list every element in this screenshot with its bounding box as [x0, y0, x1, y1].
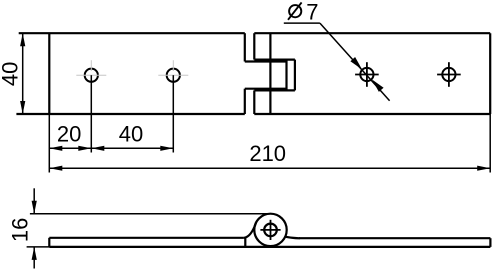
arrow dim16 down [32, 201, 37, 214]
side: right S-curve [285, 237, 300, 239]
svg-text:7: 7 [306, 0, 318, 24]
arrow leader lower [372, 79, 384, 92]
hole 3 [360, 68, 373, 81]
side: left leaf end edge [244, 238, 246, 247]
hole 2 centerlines [158, 74, 188, 76]
top view: left leaf bottom edge [16, 113, 244, 115]
dim 16 line lower [33, 247, 35, 269]
knuckle: left leaf step upper [244, 33, 246, 61]
top view: right leaf right edge [489, 33, 491, 114]
extension line left edge [48, 114, 50, 173]
knuckle: upper slot line [254, 58, 295, 60]
knuckle: left leaf step lower [244, 89, 246, 114]
knuckle: left tab top edge [245, 60, 287, 62]
hole 1 [85, 69, 98, 82]
text 40 vertical [0, 62, 23, 86]
arrow dim20 left [49, 146, 62, 151]
dim line 40 vertical [22, 33, 24, 114]
arrow dim40 left [91, 146, 104, 151]
arrow dim210 left [49, 166, 62, 171]
dim line 210 [49, 167, 490, 169]
arrow dim210 right [477, 166, 490, 171]
dim 16 line upper [33, 188, 35, 213]
side: left leaf left edge [48, 238, 50, 247]
dim line 20/40 [49, 147, 173, 149]
side: pin crosshair [260, 229, 280, 231]
knuckle: right leaf tab edge upper [253, 33, 255, 59]
side: right leaf top [299, 237, 490, 239]
knuckle: left leaf tab end [285, 60, 287, 90]
side: left fillet curve [244, 223, 256, 238]
svg-text:16: 16 [8, 218, 33, 242]
text 16 vertical [8, 218, 33, 242]
svg-text:40: 40 [0, 62, 23, 86]
hole 4 [442, 68, 455, 81]
arrow leader upper [350, 57, 362, 70]
ext line bottom left [27, 246, 50, 248]
side: left leaf top [49, 237, 244, 239]
diameter symbol [288, 2, 302, 19]
svg-text:20: 20 [57, 122, 81, 147]
knuckle: right leaf body edge [269, 33, 271, 114]
ext line knuckle top [30, 213, 271, 215]
svg-text:210: 210 [249, 141, 286, 166]
hole 2 [167, 69, 180, 82]
hole 4 crosshair [437, 74, 461, 76]
leader line [320, 23, 390, 101]
knuckle: left tab bottom edge [245, 88, 287, 90]
side: pin circle [264, 224, 277, 237]
arrow dim40v down [20, 101, 25, 114]
arrow dim40 right [160, 146, 173, 151]
knuckle: socket end [294, 60, 296, 91]
top view: left leaf top edge [19, 32, 245, 34]
side: knuckle outer circle [254, 214, 286, 246]
extension line right edge [489, 114, 491, 173]
top view: left leaf left edge [48, 33, 50, 114]
knuckle: right leaf tab edge lower [253, 90, 255, 114]
extension line hole1 [90, 75, 92, 152]
knuckle: lower slot line [254, 89, 295, 91]
side: right leaf right edge [489, 238, 491, 247]
top view: right leaf bottom edge [254, 113, 490, 115]
hole 3 crosshair [355, 74, 379, 76]
arrow dim40v up [20, 33, 25, 46]
arrow dim16 up [32, 247, 37, 260]
hole 1 centerlines [76, 74, 106, 76]
extension line hole2 [172, 75, 174, 152]
top view: right leaf top edge [254, 32, 490, 34]
leader shoulder [284, 22, 320, 24]
side view [49, 214, 490, 247]
svg-text:40: 40 [119, 122, 143, 147]
arrow dim20 right [78, 146, 91, 151]
side: bottom surface [49, 246, 490, 248]
